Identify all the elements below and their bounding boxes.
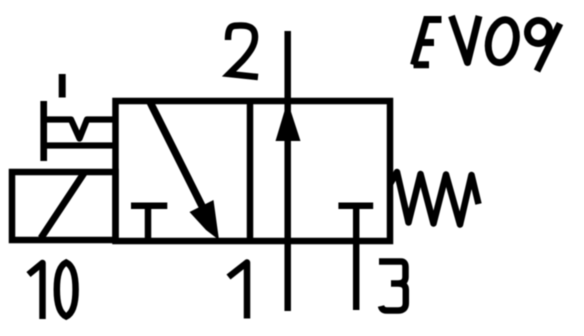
- detent left vertical: [40, 101, 47, 161]
- label 10: [29, 263, 43, 319]
- valve body: [116, 101, 391, 241]
- detent lower line: [44, 142, 116, 148]
- blocked port T right (port 3): [338, 203, 373, 210]
- detent notched line: [44, 120, 116, 139]
- solenoid box: [12, 172, 116, 240]
- label 3: [379, 262, 406, 311]
- blocked port T left: [131, 203, 167, 210]
- flow path diagonal left square: [150, 102, 206, 214]
- label 2: [228, 25, 258, 77]
- label 1: [229, 263, 248, 319]
- solenoid diagonal: [41, 173, 84, 239]
- divider between positions: [247, 101, 254, 241]
- spring: [390, 172, 479, 225]
- wire port2-port1 flow line: [284, 31, 291, 311]
- arrowhead up (flow 1 to 2): [276, 101, 301, 141]
- label EV09: [414, 20, 442, 65]
- detent tick: [59, 74, 66, 98]
- arrowhead diagonal: [190, 200, 220, 240]
